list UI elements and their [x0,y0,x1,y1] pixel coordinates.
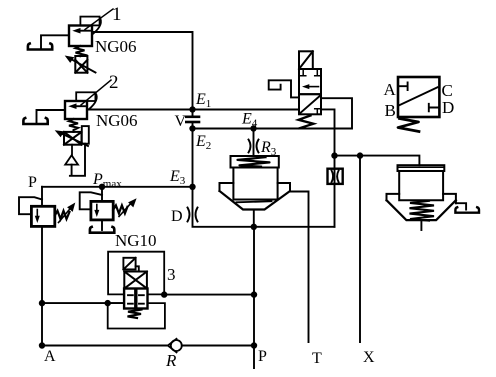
check valve R ball [171,340,182,351]
drain U-wire under valve 2 [70,144,85,176]
relief valve P internal arrow [35,210,40,224]
wire U4 right port down x334 [321,109,335,155]
svg-text:3: 3 [167,265,176,284]
wire left rail to valve3 left port [42,302,124,304]
valve 1 internal arrow [72,28,90,34]
orifice R3 arcs [249,140,259,153]
valve 3 spring [128,310,142,319]
relief valve P spring [55,211,70,219]
node P rail [251,342,257,348]
svg-text:P: P [258,348,267,365]
svg-text:D: D [171,208,183,225]
relief valve Pmax spring [113,205,127,213]
wire y155.6 to right valve [335,156,420,166]
main cartridge valve inner seat line [237,201,272,202]
tank symbol (valve 2) [23,118,47,124]
legend box (function diagram) [398,77,439,117]
svg-text:E3: E3 [169,168,186,187]
tank symbol (right cartridge valve) [455,207,479,212]
svg-text:T: T [312,350,322,367]
valve 3 solenoid X-box [124,272,147,289]
node E4 [250,125,256,131]
svg-text:E1: E1 [195,91,211,110]
wire main valve right wing to T line [290,192,309,343]
check triangle under valve 2 [65,145,78,165]
spring under valve 2 [69,119,78,132]
svg-text:E2: E2 [195,133,211,152]
leader line to label 2 [81,80,111,105]
relief valve Pmax pilot loop [80,192,102,209]
main cartridge valve U spring band [231,156,279,168]
main valve stem down to rail [253,210,255,227]
U4 upper box blocked port marks [301,70,320,76]
valve 3 pilot solenoid box with diagonal [123,258,138,272]
valve 1 (NG06 pilot relief valve) body box [69,26,92,47]
A rail wire right segment [182,345,254,347]
wire E4 line [193,98,353,128]
node Pmax [99,184,105,190]
wire valve2 left to tank [37,110,66,122]
main cartridge valve body [233,168,277,200]
svg-text:NG06: NG06 [96,111,138,130]
node valve3 left port corner [105,300,111,306]
svg-text:NG10: NG10 [115,231,157,250]
legend diagonal characteristic [399,87,438,105]
right cartridge valve poppet funnel [387,200,456,220]
feedback piston rectangle (valve 2) [82,126,89,144]
pilot valve U4 upper position box [299,69,321,94]
wire E3 down through orifice D to bottom rail [193,187,335,227]
right cartridge valve top band [398,165,445,171]
U4 tank hook wire [269,80,299,97]
node E3 [189,184,195,190]
node main stem / rail junction [251,224,257,230]
wire down to relief valve P [41,187,43,207]
NG10 frame upper rectangle [108,252,164,295]
wire P/Pmax supply line to E3 [42,186,193,188]
relief valve Pmax adjustment arrow [119,198,137,216]
tank symbol (Pmax) [90,227,114,233]
U4 lower box diagonal path [301,96,321,113]
NG10 frame lower rectangle [108,303,165,328]
node X line top [357,152,363,158]
svg-text:Pmax: Pmax [92,171,122,190]
right cartridge valve right wing [443,194,456,203]
relief valve P pilot loop [19,197,42,214]
right cartridge valve stem [420,220,422,230]
main cartridge valve poppet funnel [220,191,291,210]
svg-text:X: X [363,349,375,366]
spring under valve 1 [76,46,85,56]
boxed orifice on x334 line [328,169,343,184]
pilot wire E4 down to main valve [253,129,255,157]
adjustment arrow through X-box (valve 1) [65,56,96,73]
right cartridge valve drain wire [456,203,466,209]
svg-text:2: 2 [109,72,119,93]
volume V symbol (two plates) [186,117,199,122]
wire E1 to V to E2 [192,110,194,129]
svg-text:V: V [175,113,187,130]
svg-text:P: P [28,174,37,191]
node NG10 frame corner right [161,291,167,297]
P vertical line [253,227,255,368]
svg-text:R: R [165,351,177,370]
node left rail junction [39,300,45,306]
wire relief valve P down to A rail [41,226,43,345]
relief valve Pmax body [91,201,113,220]
valve 1 3D pilot cap [80,17,101,34]
wire valve 2 output / E1 line [87,109,299,111]
svg-text:1: 1 [112,4,122,25]
wire valve3 right port to P line [164,294,254,296]
orifice D arcs [188,208,198,222]
U4 return spring [299,116,314,129]
X line [359,156,361,342]
right cartridge valve spring [410,201,435,221]
valve 2 internal arrow [68,103,85,109]
wire x334 down through boxed orifice to rail [334,156,336,227]
node E2 [189,125,195,131]
pilot valve U4 solenoid box [299,51,313,69]
node A rail left [39,342,45,348]
wire E2 down to E3 [192,129,194,187]
wire valve1 left to tank [41,35,69,47]
valve 3 body box [124,289,147,309]
wire down to relief valve Pmax [101,187,103,202]
valve 3 internal closed-spool marks [128,291,144,306]
svg-text:NG06: NG06 [95,37,137,56]
node x334 top [331,152,337,158]
relief valve P body [31,206,54,226]
valve 2 3D pilot cap [76,92,97,109]
pilot valve U4 lower position box [299,94,321,114]
wire relief valve Pmax to tank [101,220,103,230]
main cartridge valve left wing [220,183,234,191]
main cartridge valve spring (flat zigzag) [238,157,270,166]
check valve R seat [168,339,177,353]
legend port D line and tick [429,104,440,112]
legend port A line and tick [398,83,408,91]
right cartridge valve body [399,171,443,200]
solenoid X-box (valve 2) [64,132,82,145]
solenoid X-box (valve 1) [75,56,87,73]
svg-text:B: B [385,101,396,120]
relief valve P adjustment arrow [59,203,76,223]
node on P vertical [251,291,257,297]
wire valve 1 output to E1 drop [92,32,193,110]
tank symbol (valve 1) [28,44,52,50]
A rail wire left segment [42,345,168,347]
svg-text:E4: E4 [241,111,258,130]
main cartridge valve right wing [278,183,290,191]
legend spring [398,119,419,132]
relief valve Pmax internal arrow [94,205,99,218]
adjustment arrow through X-box (valve 2) [55,130,88,146]
U4 upper box arrow [302,84,319,89]
svg-text:A: A [384,80,397,99]
svg-text:A: A [44,348,56,365]
right cartridge valve left wing [387,194,400,200]
valve 2 (NG06 pilot relief valve) body box [65,101,87,119]
U4 lower box blocked port mark [315,109,320,115]
node E1 [189,106,195,112]
leader line to label 1 [85,9,113,30]
svg-text:D: D [442,98,454,117]
right cartridge valve top band inner line [398,166,445,168]
